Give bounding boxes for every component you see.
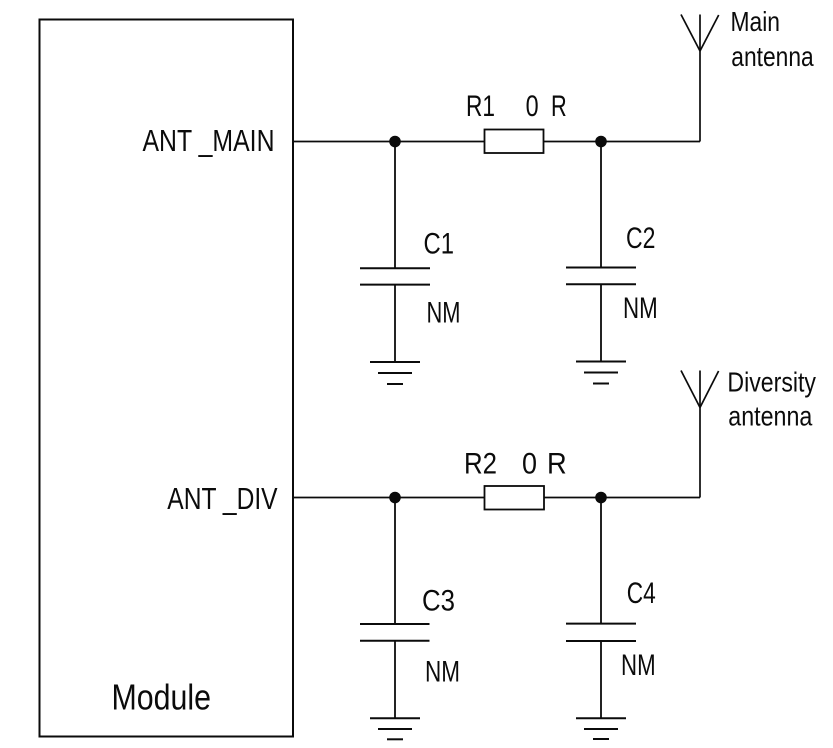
svg-text:R: R: [547, 448, 567, 481]
svg-text:NM: NM: [427, 297, 461, 330]
resistor R1: [485, 130, 544, 154]
ground of C2: [576, 362, 626, 384]
capacitor C3: [360, 624, 430, 641]
svg-text:Diversity: Diversity: [727, 366, 816, 397]
wire node to C1: [394, 142, 396, 269]
node junction dot left of R1: [389, 136, 401, 148]
svg-text:NM: NM: [425, 655, 460, 688]
svg-text:antenna: antenna: [728, 400, 812, 431]
wire R1 to main antenna: [544, 141, 701, 143]
svg-text:C3: C3: [422, 585, 455, 618]
wire C2 to ground: [600, 284, 602, 361]
svg-text:antenna: antenna: [731, 41, 814, 72]
ground of C4: [576, 718, 626, 739]
svg-text:R1: R1: [466, 90, 495, 123]
svg-text:0: 0: [526, 90, 539, 123]
capacitor C1: [360, 268, 430, 284]
wire R2 to diversity antenna: [544, 497, 700, 499]
svg-text:NM: NM: [623, 292, 658, 325]
wire C4 to ground: [600, 641, 602, 718]
svg-text:0: 0: [522, 448, 537, 481]
wire C3 to ground: [394, 641, 396, 719]
wire node to C4: [600, 498, 602, 624]
wire ANT_DIV: module edge to R2: [293, 497, 485, 499]
svg-text:C1: C1: [424, 228, 455, 261]
diversity antenna: [681, 371, 719, 498]
wire C1 to ground: [394, 285, 396, 362]
module U1 (Module box): [40, 20, 294, 737]
main antenna: [681, 15, 719, 142]
ground of C3: [370, 718, 420, 739]
capacitor C2: [566, 268, 636, 285]
svg-text:Main: Main: [731, 6, 781, 37]
svg-text:R: R: [551, 90, 567, 123]
resistor R2: [485, 486, 545, 510]
svg-text:R2: R2: [464, 448, 497, 481]
svg-text:Module: Module: [112, 677, 212, 718]
capacitor C4: [566, 624, 636, 641]
svg-text:ANT _MAIN: ANT _MAIN: [143, 123, 275, 158]
svg-text:C2: C2: [626, 222, 655, 255]
svg-text:C4: C4: [627, 577, 656, 610]
node junction dot right of R2: [595, 492, 607, 504]
ground of C1: [370, 362, 420, 384]
svg-text:ANT _DIV: ANT _DIV: [167, 481, 278, 516]
wire node to C2: [600, 142, 602, 268]
node junction dot left of R2: [389, 492, 401, 504]
node junction dot right of R1: [595, 136, 607, 148]
wire ANT_MAIN: module edge to R1: [293, 141, 485, 143]
wire node to C3: [394, 498, 396, 625]
svg-text:NM: NM: [621, 649, 656, 682]
